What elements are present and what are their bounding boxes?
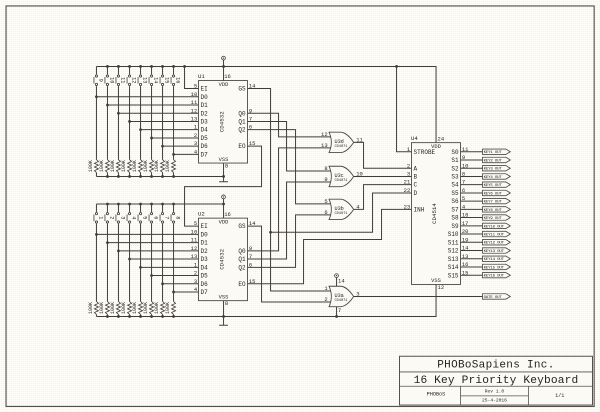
svg-text:S11: S11: [448, 239, 459, 246]
wire resistor R10 to ground rail: [106, 173, 108, 177]
wire key10 to U1 D1: [107, 104, 198, 106]
wire U1 VDD pin stub: [223, 66, 225, 80]
svg-text:100K: 100K: [132, 160, 138, 172]
wire U4 STROBE riser from VDD rail: [397, 66, 412, 151]
svg-text:KEY10 OUT: KEY10 OUT: [484, 225, 505, 229]
svg-text:CD4071: CD4071: [334, 145, 348, 149]
svg-text:KEY16 OUT: KEY16 OUT: [484, 275, 505, 279]
wire switch SW3 column: [117, 204, 119, 212]
wire U4 S12 to KEY13 OUT: [461, 250, 483, 252]
svg-text:8: 8: [174, 216, 180, 219]
wire U1 EI riser from VDD rail: [185, 66, 199, 88]
IC U1 CD4532 priority encoder: [199, 81, 248, 164]
switch SW4 (key 4): [128, 213, 130, 215]
svg-text:GS: GS: [238, 223, 246, 230]
svg-text:VDD: VDD: [219, 220, 229, 226]
svg-text:8: 8: [225, 163, 228, 170]
svg-text:9: 9: [249, 245, 252, 252]
svg-text:D3: D3: [201, 119, 209, 126]
wire U1 VSS to ground rail: [223, 163, 225, 176]
svg-text:D0: D0: [201, 94, 209, 101]
switch SW3 (key 3): [117, 213, 119, 215]
svg-text:100K: 100K: [121, 160, 127, 172]
svg-text:2: 2: [324, 296, 327, 303]
wire resistor R8 to ground rail: [173, 314, 175, 316]
svg-text:S2: S2: [451, 165, 459, 172]
switch SW2 (key 2): [106, 213, 108, 215]
svg-text:S9: S9: [451, 223, 459, 230]
switch SW1 (key 1): [95, 213, 97, 215]
wire U4 S0 to KEY1 OUT: [461, 151, 483, 153]
svg-text:S15: S15: [448, 272, 459, 279]
svg-text:15: 15: [163, 77, 169, 83]
resistor R12 100K: [128, 160, 132, 173]
wire switch SW5 column: [140, 204, 142, 212]
global label KEY14 OUT: [483, 256, 511, 261]
svg-text:D6: D6: [201, 281, 209, 288]
resistor R9 100K: [94, 160, 98, 173]
svg-text:S6: S6: [451, 198, 459, 205]
junction dots on VDD lower rail: [106, 203, 109, 206]
svg-text:5: 5: [462, 195, 465, 202]
svg-text:CD4532: CD4532: [219, 111, 226, 132]
svg-text:PHOBoSapiens Inc.: PHOBoSapiens Inc.: [437, 359, 554, 371]
svg-text:8: 8: [462, 171, 465, 178]
svg-text:S1: S1: [451, 157, 459, 164]
svg-text:14: 14: [249, 83, 256, 90]
wire U4 S4 to KEY5 OUT: [461, 184, 483, 186]
global label KEY6 OUT: [483, 190, 511, 195]
svg-text:12: 12: [438, 284, 445, 291]
svg-text:3: 3: [356, 291, 359, 298]
svg-text:11: 11: [462, 146, 469, 153]
svg-text:D4: D4: [201, 127, 209, 134]
svg-text:5: 5: [141, 216, 147, 219]
svg-text:KEY2 OUT: KEY2 OUT: [484, 159, 503, 163]
wire key12 to U1 D3: [130, 120, 199, 122]
svg-text:15: 15: [462, 269, 469, 276]
switch SW5 (key 5): [139, 213, 141, 215]
svg-text:CD4071: CD4071: [334, 299, 348, 303]
svg-text:15: 15: [249, 140, 256, 147]
svg-text:6: 6: [249, 261, 252, 268]
svg-text:7: 7: [338, 307, 341, 314]
svg-text:16: 16: [462, 261, 469, 268]
global label KEY16 OUT: [483, 273, 511, 278]
global label KEY15 OUT: [483, 264, 511, 269]
switch SW6 (key 6): [150, 213, 152, 215]
svg-text:Q1: Q1: [238, 256, 246, 263]
resistor R3 100K: [116, 301, 120, 314]
svg-text:EI: EI: [201, 223, 208, 230]
global label KEY11 OUT: [483, 231, 511, 236]
wire U1 EO to U2 EI (cascade enable): [185, 146, 262, 226]
junction dots on VDD top rail: [106, 65, 109, 68]
svg-text:A: A: [414, 165, 418, 172]
wire key2 to U2 D1: [107, 242, 198, 244]
wire switch SW4 column: [129, 204, 131, 212]
svg-text:D5: D5: [201, 135, 209, 142]
resistor R8 100K: [172, 301, 176, 314]
svg-text:CD4071: CD4071: [334, 212, 348, 216]
wire U2 EO to U4 INH: [248, 209, 412, 283]
wire key4 to U2 D3: [130, 258, 199, 260]
power symbol VDD (top rail): [223, 60, 225, 66]
svg-text:Q1: Q1: [238, 119, 246, 126]
svg-text:17: 17: [462, 220, 469, 227]
wire U4 S5 to KEY6 OUT: [461, 192, 483, 194]
wire U4 S13 to KEY14 OUT: [461, 258, 483, 260]
svg-text:100K: 100K: [154, 302, 160, 314]
svg-text:9: 9: [462, 154, 465, 161]
svg-text:S3: S3: [451, 174, 459, 181]
wire U1 GS to U3a input 1 and U4 D branch: [248, 89, 333, 291]
wire U1 Q0 to U3d input 12: [248, 113, 333, 137]
svg-text:3: 3: [407, 171, 410, 178]
OR gate U3c CD4071: [329, 166, 354, 186]
svg-text:24: 24: [438, 135, 445, 142]
switch SW7 (key 7): [161, 213, 163, 215]
svg-text:KEY8 OUT: KEY8 OUT: [484, 209, 503, 213]
svg-text:11: 11: [191, 99, 198, 106]
switch SW12 (key 12): [128, 75, 130, 77]
ground symbol below U1 VSS: [223, 176, 225, 181]
svg-text:15: 15: [249, 278, 256, 285]
wire U3b output 4 to U4 C: [354, 185, 412, 210]
switch SW13 (key 13): [139, 75, 141, 77]
wire key8 to U2 D7: [174, 291, 199, 293]
svg-text:INH: INH: [414, 206, 425, 213]
resistor R2 100K: [105, 301, 109, 314]
svg-text:12: 12: [191, 107, 198, 114]
wire key11 to U1 D2: [118, 112, 198, 114]
power symbol VDD (lower rail): [223, 199, 225, 204]
global label KEY1 OUT: [483, 149, 511, 154]
svg-text:13: 13: [191, 116, 198, 123]
resistor R5 100K: [139, 301, 143, 314]
svg-text:14: 14: [249, 220, 256, 227]
svg-text:100K: 100K: [143, 302, 149, 314]
wire U2 Q0 to U3d input 13: [248, 148, 333, 251]
svg-text:EI: EI: [201, 86, 208, 93]
svg-text:100K: 100K: [154, 160, 160, 172]
OR gate U3d CD4071: [329, 132, 354, 152]
svg-text:S4: S4: [451, 182, 459, 189]
wire switch SW8 column: [173, 204, 175, 212]
svg-text:10: 10: [108, 77, 114, 83]
svg-text:22: 22: [404, 187, 411, 194]
svg-text:KEY13 OUT: KEY13 OUT: [484, 250, 505, 254]
global label KEY7 OUT: [483, 198, 511, 203]
svg-text:Q2: Q2: [238, 264, 246, 271]
junction dots on lower ground rail: [106, 315, 109, 318]
wire U2 Q1 to U3c input 9: [248, 182, 333, 259]
switch SW16 (key 16): [172, 75, 174, 77]
svg-text:14: 14: [152, 77, 158, 83]
wire key9 to U1 D0: [96, 96, 198, 98]
switch SW8 (key 8): [172, 213, 174, 215]
svg-text:2: 2: [194, 270, 197, 277]
IC U2 CD4532 priority encoder: [199, 218, 248, 301]
junction dot U1 GS branch to U4 D: [269, 231, 272, 234]
wire U1 GS branch to U4 D: [271, 193, 412, 232]
global label GATE OUT: [483, 294, 511, 299]
svg-text:4: 4: [130, 216, 136, 219]
svg-text:16: 16: [174, 77, 180, 83]
resistor R6 100K: [150, 301, 154, 314]
wire switch SW10 column: [106, 66, 108, 74]
wire resistor R7 to ground rail: [162, 314, 164, 316]
svg-text:100K: 100K: [132, 302, 138, 314]
svg-text:S14: S14: [448, 264, 459, 271]
svg-text:100K: 100K: [165, 160, 171, 172]
svg-text:KEY5 OUT: KEY5 OUT: [484, 184, 503, 188]
svg-text:S0: S0: [451, 149, 459, 156]
svg-text:GS: GS: [238, 86, 246, 93]
svg-text:21: 21: [404, 179, 411, 186]
wire U3d output 11 to U4 A: [354, 142, 412, 168]
svg-text:D7: D7: [201, 289, 209, 296]
svg-text:100K: 100K: [143, 160, 149, 172]
wire key13 to U1 D4: [141, 129, 199, 131]
svg-text:KEY6 OUT: KEY6 OUT: [484, 192, 503, 196]
wire U2 VSS to ground rail: [223, 301, 225, 317]
svg-text:CD4071: CD4071: [334, 179, 348, 183]
svg-text:D2: D2: [201, 248, 209, 255]
wire key6 to U2 D5: [152, 275, 199, 277]
wire U4 S1 to KEY2 OUT: [461, 159, 483, 161]
wire switch SW16 column: [173, 66, 175, 74]
svg-text:12: 12: [191, 245, 198, 252]
wire key15 to U1 D6: [163, 145, 199, 147]
switch SW9 (key 9): [95, 75, 97, 77]
svg-text:KEY11 OUT: KEY11 OUT: [484, 234, 505, 238]
svg-text:U1: U1: [198, 73, 205, 80]
svg-text:PHOBoS: PHOBoS: [427, 392, 446, 398]
svg-text:Q0: Q0: [238, 110, 246, 117]
svg-text:EO: EO: [238, 281, 246, 288]
switch SW15 (key 15): [161, 75, 163, 77]
global label KEY2 OUT: [483, 157, 511, 162]
svg-text:S8: S8: [451, 215, 459, 222]
wire U2 GS to U3a input 2: [248, 226, 333, 302]
wire key5 to U2 D4: [141, 266, 199, 268]
wire resistor R13 to ground rail: [140, 173, 142, 177]
svg-text:7: 7: [249, 116, 252, 123]
global label KEY8 OUT: [483, 207, 511, 212]
wire resistor R5 to ground rail: [140, 314, 142, 316]
svg-text:23: 23: [404, 203, 411, 210]
wire switch SW13 column: [140, 66, 142, 74]
svg-text:6: 6: [462, 187, 465, 194]
svg-text:100K: 100K: [88, 160, 94, 172]
svg-text:10: 10: [462, 162, 469, 169]
wire switch SW12 column: [129, 66, 131, 74]
OR gate U3a CD4071: [329, 286, 354, 306]
wire key7 to U2 D6: [163, 283, 199, 285]
svg-text:100K: 100K: [110, 302, 116, 314]
wire U4 S8 to KEY9 OUT: [461, 217, 483, 219]
svg-text:18: 18: [462, 212, 469, 219]
wire resistor R4 to ground rail: [129, 314, 131, 316]
svg-text:C: C: [414, 182, 418, 189]
wire resistor R2 to ground rail: [106, 314, 108, 316]
wire U4 S10 to KEY11 OUT: [461, 233, 483, 235]
wire U1 Q1 to U3c input 8: [248, 121, 333, 171]
wire switch SW11 column: [117, 66, 119, 74]
svg-text:10: 10: [191, 91, 198, 98]
wire switch SW7 column: [162, 204, 164, 212]
svg-text:3: 3: [119, 216, 125, 219]
U3a pin 14 (VDD) with power symbol: [336, 278, 338, 287]
svg-text:D: D: [414, 190, 418, 197]
wire key14 to U1 D5: [152, 137, 199, 139]
svg-text:Rev 1.0: Rev 1.0: [485, 388, 505, 394]
svg-text:14: 14: [462, 245, 469, 252]
wire switch SW14 column: [151, 66, 153, 74]
svg-text:KEY12 OUT: KEY12 OUT: [484, 242, 505, 246]
svg-text:9: 9: [324, 176, 327, 183]
svg-text:16: 16: [224, 211, 231, 218]
svg-text:Q2: Q2: [238, 127, 246, 134]
wire U1 Q2 to U3b input 5: [248, 130, 333, 204]
wire switch SW6 column: [151, 204, 153, 212]
resistor R1 100K: [94, 301, 98, 314]
svg-text:2: 2: [194, 132, 197, 139]
wire key3 to U2 D2: [118, 250, 198, 252]
svg-text:2: 2: [407, 162, 410, 169]
svg-text:D3: D3: [201, 256, 209, 263]
svg-text:D4: D4: [201, 264, 209, 271]
svg-text:KEY3 OUT: KEY3 OUT: [484, 168, 503, 172]
wire resistor R6 to ground rail: [151, 314, 153, 316]
svg-text:100K: 100K: [88, 302, 94, 314]
svg-text:7: 7: [462, 179, 465, 186]
wire VDD lower rail (switches 1-8, U2 VDD): [96, 203, 223, 205]
wire switch SW15 column: [162, 66, 164, 74]
svg-text:9: 9: [249, 107, 252, 114]
svg-text:KEY1 OUT: KEY1 OUT: [484, 151, 503, 155]
svg-text:16 Key Priority Keyboard: 16 Key Priority Keyboard: [414, 375, 579, 387]
wire U4 S2 to KEY3 OUT: [461, 167, 483, 169]
svg-text:6: 6: [152, 216, 158, 219]
wire U4 S9 to KEY10 OUT: [461, 225, 483, 227]
svg-text:S7: S7: [451, 206, 459, 213]
resistor R4 100K: [128, 301, 132, 314]
svg-text:20: 20: [462, 228, 469, 235]
svg-text:1/1: 1/1: [555, 393, 564, 399]
svg-text:5: 5: [324, 198, 327, 205]
svg-text:10: 10: [191, 228, 198, 235]
svg-text:5: 5: [194, 83, 197, 90]
svg-text:9: 9: [97, 79, 103, 82]
svg-text:7: 7: [249, 253, 252, 260]
svg-text:D1: D1: [201, 240, 209, 247]
svg-text:7: 7: [163, 216, 169, 219]
svg-text:S12: S12: [448, 248, 459, 255]
svg-text:EO: EO: [238, 143, 246, 150]
svg-text:13: 13: [191, 253, 198, 260]
svg-text:CD4532: CD4532: [219, 248, 226, 269]
svg-text:13: 13: [321, 142, 328, 149]
wire lower ground rail (resistors, U2 VSS, U3a VSS, U4 VSS): [96, 284, 436, 316]
svg-text:14: 14: [338, 277, 345, 284]
resistor R7 100K: [161, 301, 165, 314]
svg-text:STROBE: STROBE: [414, 149, 436, 156]
title block: [400, 356, 593, 405]
svg-text:13: 13: [141, 77, 147, 83]
switch SW11 (key 11): [117, 75, 119, 77]
wire resistor R9 to ground rail: [95, 173, 97, 177]
svg-text:3: 3: [194, 278, 197, 285]
svg-text:8: 8: [225, 300, 228, 307]
global label KEY4 OUT: [483, 174, 511, 179]
junction dots at switch D taps (top bank): [95, 95, 98, 98]
svg-text:100K: 100K: [121, 302, 127, 314]
svg-text:11: 11: [119, 77, 125, 83]
svg-text:6: 6: [249, 124, 252, 131]
svg-text:6: 6: [324, 209, 327, 216]
global label KEY13 OUT: [483, 248, 511, 253]
svg-text:3: 3: [194, 140, 197, 147]
svg-text:CD4514: CD4514: [431, 203, 438, 224]
svg-text:KEY9 OUT: KEY9 OUT: [484, 217, 503, 221]
global label KEY12 OUT: [483, 240, 511, 245]
svg-text:D5: D5: [201, 273, 209, 280]
switch SW14 (key 14): [150, 75, 152, 77]
wire U2 VDD pin stub: [223, 204, 225, 218]
svg-text:B: B: [414, 174, 418, 181]
svg-text:KEY15 OUT: KEY15 OUT: [484, 266, 505, 270]
svg-text:KEY7 OUT: KEY7 OUT: [484, 201, 503, 205]
wire U4 S14 to KEY15 OUT: [461, 266, 483, 268]
svg-text:U4: U4: [411, 135, 418, 142]
wire U4 S7 to KEY8 OUT: [461, 208, 483, 210]
svg-text:D2: D2: [201, 110, 209, 117]
resistor R13 100K: [139, 160, 143, 173]
resistor R15 100K: [161, 160, 165, 173]
wire key16 to U1 D7: [174, 153, 199, 155]
IC U4 CD4514 4-to-16 decoder: [412, 143, 461, 285]
wire resistor R14 to ground rail: [151, 173, 153, 177]
svg-text:D1: D1: [201, 102, 209, 109]
svg-text:S5: S5: [451, 190, 459, 197]
wire U2 Q2 to U3b input 6: [248, 215, 333, 268]
svg-text:Q0: Q0: [238, 248, 246, 255]
svg-text:11: 11: [356, 136, 363, 143]
wire U4 S11 to KEY12 OUT: [461, 241, 483, 243]
global label KEY3 OUT: [483, 166, 511, 171]
svg-text:12: 12: [321, 131, 328, 138]
svg-text:VDD: VDD: [219, 82, 229, 88]
wire U4 S3 to KEY4 OUT: [461, 175, 483, 177]
junction dots on top resistor ground rail: [106, 175, 109, 178]
svg-text:KEY14 OUT: KEY14 OUT: [484, 258, 505, 262]
svg-text:19: 19: [462, 236, 469, 243]
global label KEY10 OUT: [483, 223, 511, 228]
svg-text:S13: S13: [448, 256, 459, 263]
junction dots at switch D taps (lower bank): [95, 233, 98, 236]
svg-text:GATE OUT: GATE OUT: [484, 296, 503, 300]
svg-text:D6: D6: [201, 143, 209, 150]
wire U4 S15 to KEY16 OUT: [461, 274, 483, 276]
svg-text:12: 12: [130, 77, 136, 83]
wire key1 to U2 D0: [96, 233, 198, 235]
wire U4 S6 to KEY7 OUT: [461, 200, 483, 202]
svg-text:16: 16: [224, 73, 231, 80]
svg-text:100K: 100K: [99, 302, 105, 314]
wire switch SW9 column: [95, 66, 97, 74]
